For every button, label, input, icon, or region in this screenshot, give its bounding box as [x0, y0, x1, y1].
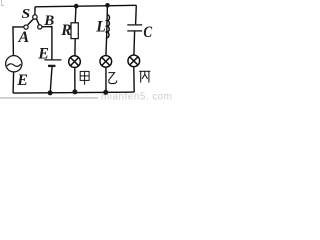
svg-text:C: C — [143, 24, 152, 41]
svg-text:E: E — [37, 46, 49, 63]
svg-text:L: L — [95, 19, 105, 36]
svg-text:R: R — [60, 22, 71, 39]
svg-text:S: S — [22, 6, 31, 21]
svg-text:A: A — [18, 29, 30, 46]
svg-text:E: E — [16, 72, 28, 89]
svg-text:B: B — [43, 13, 54, 29]
